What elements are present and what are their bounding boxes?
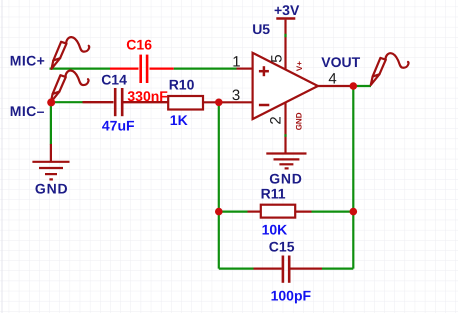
- svg-text:1K: 1K: [170, 112, 188, 128]
- power symbol +3V: [276, 17, 295, 20]
- wire R11 right to VOUT net: [312, 211, 354, 213]
- ground symbol at op-amp pin 2: [266, 154, 306, 169]
- svg-text:MIC+: MIC+: [10, 52, 45, 68]
- op-amp U5: [253, 20, 318, 153]
- svg-text:2: 2: [268, 116, 285, 124]
- probe pen at VOUT: [371, 53, 409, 85]
- svg-text:GND: GND: [35, 180, 69, 196]
- svg-text:MIC–: MIC–: [10, 103, 45, 119]
- wire at op-amp pin 5: [284, 34, 286, 37]
- svg-text:R11: R11: [261, 185, 286, 201]
- wire C15 right to VOUT net: [322, 268, 353, 270]
- wire VOUT down feedback right: [352, 86, 354, 269]
- wire R10 to op-amp pin 3: [203, 101, 253, 103]
- svg-text:R10: R10: [169, 77, 195, 93]
- svg-text:C14: C14: [101, 71, 127, 87]
- capacitor C14: [83, 88, 169, 116]
- wire to R11 left: [219, 211, 248, 213]
- wire at op-amp pin 2: [284, 134, 286, 137]
- wire MIC- down to ground: [50, 102, 52, 144]
- probe pen at MIC-: [51, 70, 89, 102]
- wire MIC- to C14: [51, 101, 83, 103]
- probe pen at MIC+: [52, 37, 90, 69]
- resistor R10: [168, 96, 203, 110]
- svg-text:1: 1: [232, 54, 240, 71]
- svg-text:100pF: 100pF: [271, 287, 312, 303]
- capacitor C15: [254, 256, 323, 283]
- junction pin3 node: [215, 99, 223, 107]
- svg-text:4: 4: [328, 71, 336, 88]
- svg-text:U5: U5: [252, 21, 270, 37]
- junction MIC-: [47, 98, 55, 106]
- junction feedback left: [215, 208, 223, 216]
- svg-text:5: 5: [269, 54, 286, 62]
- svg-text:3: 3: [232, 87, 240, 104]
- svg-text:10K: 10K: [262, 221, 288, 237]
- wire node pin3 down feedback left: [218, 102, 220, 268]
- svg-text:+3V: +3V: [274, 2, 300, 18]
- svg-text:GND: GND: [269, 170, 303, 186]
- wire op-amp pin 4 output: [318, 85, 354, 87]
- resistor R11: [248, 205, 312, 218]
- svg-text:GND: GND: [295, 112, 304, 130]
- junction VOUT: [350, 82, 358, 90]
- svg-text:C15: C15: [269, 239, 295, 255]
- wire VOUT output stub: [353, 85, 371, 87]
- wire MIC+ to C16: [50, 67, 111, 69]
- ground symbol at MIC-: [32, 144, 69, 179]
- wire into op-amp pin 1: [237, 67, 253, 69]
- wire to C15 left: [219, 268, 254, 270]
- svg-text:C16: C16: [126, 36, 152, 52]
- svg-text:47uF: 47uF: [102, 118, 135, 134]
- svg-text:V+: V+: [295, 61, 304, 71]
- wire C16 to op-amp pin 1: [174, 67, 237, 69]
- capacitor C16: [110, 55, 174, 83]
- junction feedback right: [350, 208, 358, 216]
- svg-text:VOUT: VOUT: [321, 54, 360, 70]
